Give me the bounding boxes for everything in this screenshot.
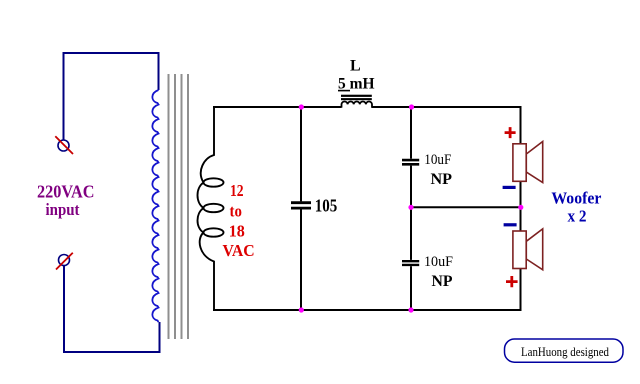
inductor L1 core bars [341, 95, 372, 101]
node dot: middle at speaker junction [518, 205, 523, 210]
designer box frame [505, 339, 624, 362]
wire: capacitor C2 top lead [410, 107, 412, 159]
svg-text:NP: NP [431, 171, 453, 188]
svg-text:to: to [230, 201, 242, 220]
svg-text:input: input [46, 200, 80, 219]
capacitor C3 plates (10uF NP lower) [402, 261, 419, 265]
speaker SP1 driver rectangle [513, 144, 526, 182]
wire: middle tie line between speakers [411, 206, 521, 208]
svg-text:18: 18 [229, 222, 245, 241]
wire: capacitor C3 bottom lead [410, 266, 412, 310]
wire: capacitor C1 bottom lead [300, 209, 302, 310]
wire: capacitor C2 bottom lead [410, 166, 412, 208]
transformer T1 secondary winding [198, 107, 224, 310]
speaker SP2 horn [526, 229, 542, 270]
wire: 220VAC top input lead [64, 53, 159, 140]
svg-text:Woofer: Woofer [551, 188, 601, 207]
svg-text:NP: NP [432, 273, 453, 290]
svg-text:220VAC: 220VAC [37, 181, 95, 201]
svg-text:105: 105 [315, 196, 338, 216]
svg-text:12: 12 [230, 181, 244, 200]
node dot: top bus at C1 [299, 104, 304, 109]
plug terminal J1 circle (top) [58, 140, 69, 151]
terminal J1 red slash [55, 136, 73, 154]
wire: top bus left segment [213, 106, 342, 108]
polarity mark: + below SP2 [506, 276, 518, 287]
svg-text:10uF: 10uF [424, 254, 453, 270]
node dot: middle at C2/C3 junction [408, 205, 413, 210]
speaker SP1 horn [526, 142, 542, 183]
capacitor C2 plates (10uF NP upper) [402, 160, 419, 164]
inductor L1 winding scallops [342, 102, 373, 108]
speaker SP2 driver rectangle [513, 231, 526, 269]
node dot: bottom bus at C1 [299, 307, 304, 312]
polarity mark: - below SP1 [503, 186, 516, 189]
wire: top bus right segment [372, 106, 522, 108]
polarity mark: + above SP1 [505, 127, 516, 138]
svg-text:10uF: 10uF [424, 152, 451, 168]
node dot: bottom bus at C3 [408, 307, 413, 312]
svg-text:x 2: x 2 [568, 206, 587, 225]
transformer T1 core laminations [169, 74, 189, 339]
polarity mark: - above SP2 [504, 223, 517, 226]
terminal J2 red slash [56, 253, 73, 270]
plug terminal J2 circle (bottom) [59, 255, 70, 266]
transformer T1 primary winding [152, 90, 158, 322]
wire: right bus (speaker branch) [520, 106, 522, 311]
underline mark under 5 [338, 90, 350, 92]
wire: capacitor C3 top lead [410, 207, 412, 260]
node dot: top bus at C2 [409, 104, 414, 109]
capacitor C1 plates (105) [291, 203, 311, 208]
wire: bottom bus [213, 309, 522, 311]
wire: 220VAC bottom input lead [64, 266, 160, 353]
wire: capacitor C1 top lead [300, 107, 302, 201]
svg-text:L: L [350, 58, 361, 75]
svg-text:VAC: VAC [223, 241, 255, 260]
svg-text:LanHuong designed: LanHuong designed [521, 344, 609, 359]
